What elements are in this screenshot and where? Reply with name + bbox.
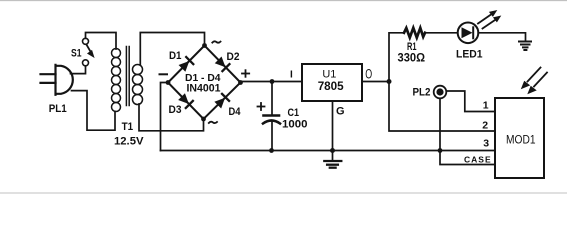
wire PL2 shield down to case xyxy=(440,98,495,164)
svg-text:IN4001: IN4001 xyxy=(187,83,221,95)
svg-text:1: 1 xyxy=(483,100,489,112)
junction U1 ground on rail xyxy=(330,148,335,153)
svg-text:1000: 1000 xyxy=(282,119,308,131)
wire secondary bottom to bridge bottom xyxy=(139,104,204,131)
bridge diamond wires xyxy=(168,46,241,120)
junction C1 bottom xyxy=(269,148,274,153)
ground rail xyxy=(161,150,496,152)
wire secondary top to bridge top xyxy=(140,33,204,66)
svg-text:D4: D4 xyxy=(229,106,242,118)
svg-text:PL1: PL1 xyxy=(49,103,67,115)
wire junction up to R1 branch xyxy=(389,33,404,82)
plus sign C1 xyxy=(258,103,265,110)
svg-text:2: 2 xyxy=(482,120,488,132)
svg-text:C1: C1 xyxy=(288,107,300,119)
junction bridge right xyxy=(238,80,243,85)
plus sign at bridge right xyxy=(242,70,249,77)
junction bridge top xyxy=(202,43,207,48)
wire plug top stub to S1 xyxy=(71,66,86,74)
junction bridge bottom xyxy=(201,117,206,122)
junction bridge left xyxy=(166,80,171,85)
transformer T1 primary winding xyxy=(112,49,121,112)
wire PL2 tip to pin1 xyxy=(446,91,495,112)
svg-text:330Ω: 330Ω xyxy=(398,51,426,65)
tilde at bridge top xyxy=(212,41,220,42)
module MOD1 box xyxy=(495,98,544,178)
svg-text:7805: 7805 xyxy=(318,79,344,93)
svg-text:12.5V: 12.5V xyxy=(114,136,144,148)
label O xyxy=(365,68,372,82)
switch S1 xyxy=(83,38,89,44)
wire U1 output to junction xyxy=(362,81,389,83)
wire R1 to LED1 xyxy=(425,32,458,34)
wire LED1 to ground xyxy=(478,33,525,41)
capacitor C1 xyxy=(271,82,273,115)
minus sign at bridge left xyxy=(160,73,168,75)
LED light arrow 1 xyxy=(478,10,497,24)
wire plug bottom stub to T1 primary bottom xyxy=(72,91,116,131)
tilde at bridge bottom xyxy=(209,122,217,123)
jack PL2 xyxy=(434,86,447,99)
svg-text:3: 3 xyxy=(483,137,489,149)
ground symbol under U1 xyxy=(324,161,341,168)
junction PL2 shield on rail xyxy=(438,148,443,153)
wire bridge right to U1 input xyxy=(241,81,303,83)
svg-text:T1: T1 xyxy=(122,121,134,133)
wire S1 top to primary top xyxy=(86,33,117,50)
diode D2 xyxy=(215,56,230,71)
junction C1 top xyxy=(270,79,275,84)
svg-text:CASE: CASE xyxy=(464,155,492,165)
transformer core xyxy=(125,47,127,106)
MOD1 light arrow 2 xyxy=(527,73,547,95)
svg-text:LED1: LED1 xyxy=(456,49,483,61)
wire junction down to pin2 xyxy=(389,82,495,132)
svg-text:S1: S1 xyxy=(71,48,82,60)
MOD1 light arrow 1 xyxy=(521,68,541,90)
resistor R1 xyxy=(404,28,425,38)
svg-text:G: G xyxy=(336,106,345,118)
LED1 xyxy=(458,23,479,44)
diode D4 xyxy=(214,94,229,109)
svg-text:D1: D1 xyxy=(169,50,182,62)
transformer T1 secondary winding xyxy=(133,65,143,105)
wire U1 ground xyxy=(332,101,334,161)
LED light arrow 2 xyxy=(483,16,502,29)
diode D1 xyxy=(178,57,193,72)
junction at U1 output xyxy=(387,79,392,84)
svg-text:D2: D2 xyxy=(227,51,240,63)
wire bridge left to ground rail xyxy=(161,83,169,151)
svg-text:MOD1: MOD1 xyxy=(506,133,536,147)
svg-text:O: O xyxy=(365,68,372,82)
regulator U1 box xyxy=(302,64,362,101)
svg-text:I: I xyxy=(290,70,293,81)
ground symbol LED xyxy=(519,42,531,51)
svg-text:PL2: PL2 xyxy=(413,87,431,99)
svg-text:D3: D3 xyxy=(169,104,182,116)
plug PL1 xyxy=(41,65,73,95)
diode D3 xyxy=(178,93,193,108)
